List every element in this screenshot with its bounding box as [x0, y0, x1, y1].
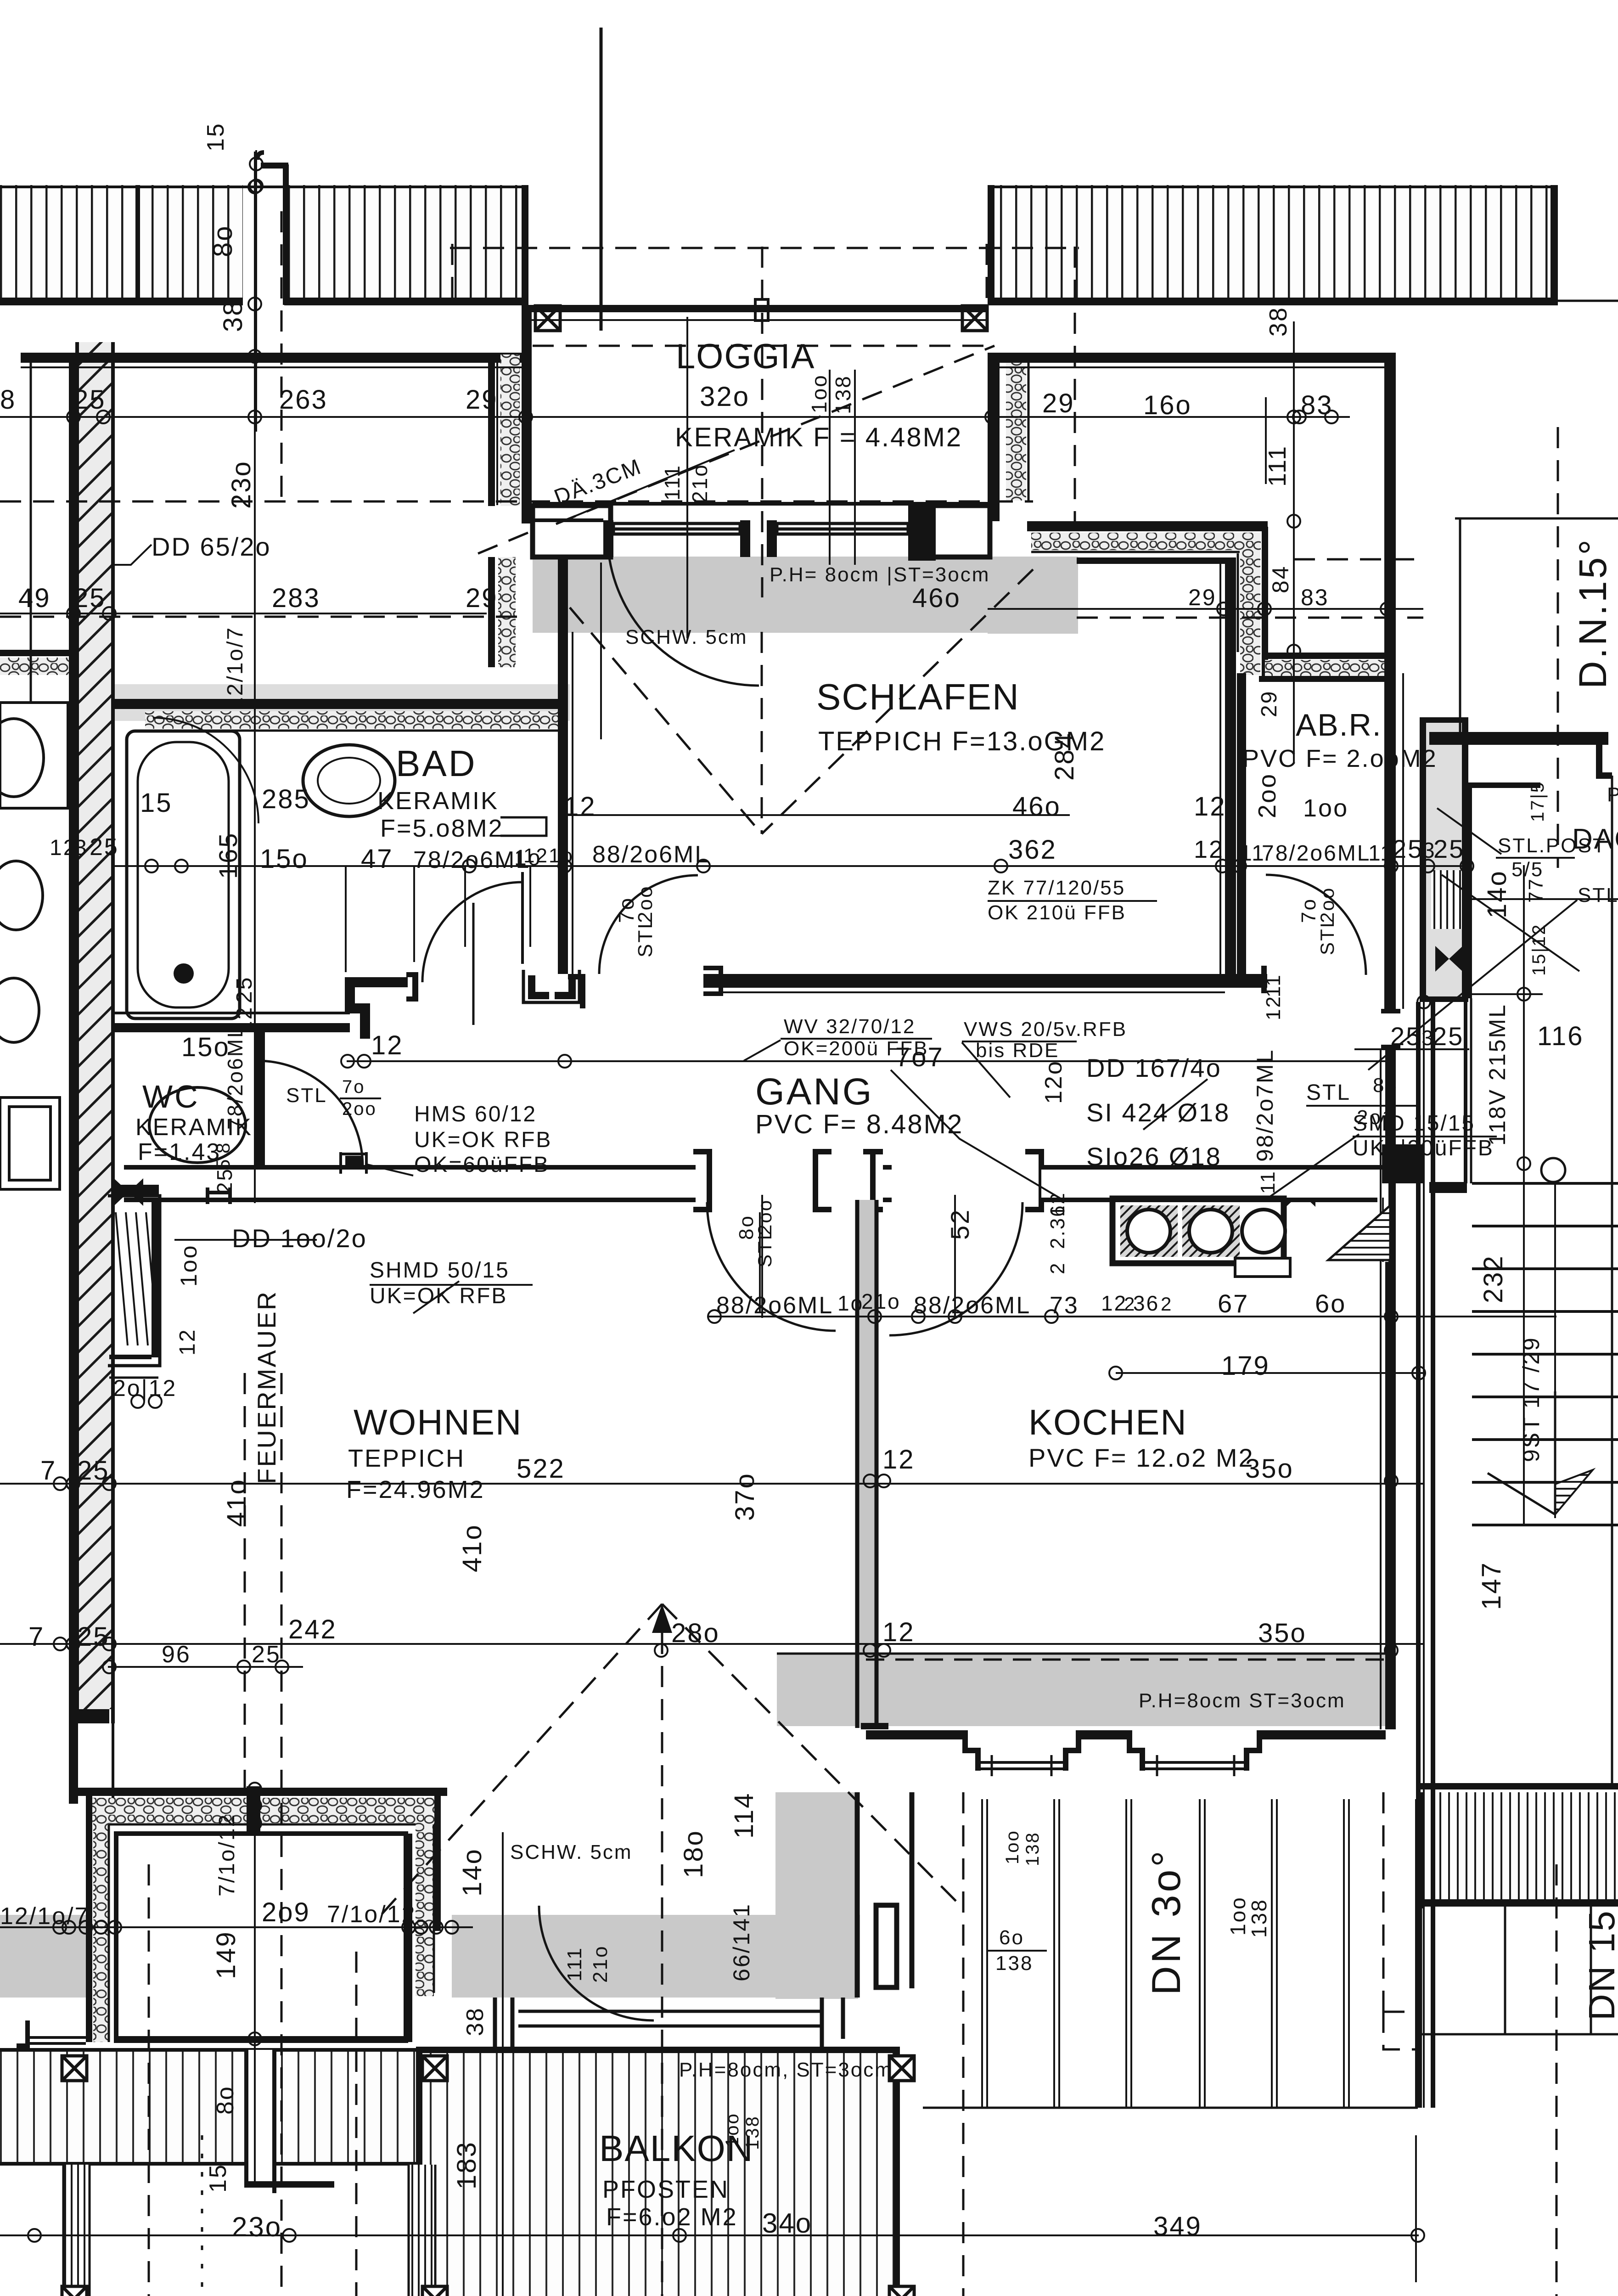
svg-text:73: 73: [1050, 1292, 1079, 1319]
svg-text:3: 3: [74, 836, 88, 860]
svg-text:DD 65/2o: DD 65/2o: [152, 532, 271, 561]
svg-text:25: 25: [77, 1622, 110, 1652]
svg-text:SCHLAFEN: SCHLAFEN: [816, 676, 1020, 717]
svg-text:9ST 17 /29: 9ST 17 /29: [1518, 1336, 1544, 1462]
svg-text:29: 29: [1188, 585, 1217, 610]
svg-text:18o: 18o: [679, 1829, 708, 1878]
svg-text:29: 29: [466, 385, 498, 415]
svg-text:WV 32/70/12: WV 32/70/12: [784, 1015, 916, 1038]
svg-text:UK=OK RFB: UK=OK RFB: [370, 1284, 507, 1308]
svg-text:25: 25: [1390, 1022, 1421, 1051]
svg-text:12/1o/7: 12/1o/7: [223, 626, 247, 709]
svg-text:25: 25: [90, 834, 119, 861]
svg-text:38: 38: [1264, 306, 1292, 337]
svg-text:12: 12: [1194, 792, 1226, 822]
svg-text:2.36: 2.36: [1046, 1204, 1069, 1249]
svg-text:WOHNEN: WOHNEN: [354, 1402, 522, 1442]
svg-text:14o: 14o: [457, 1848, 487, 1896]
svg-text:25: 25: [1433, 1022, 1464, 1051]
svg-text:88/2o6ML: 88/2o6ML: [914, 1292, 1031, 1319]
svg-text:WC: WC: [142, 1079, 200, 1114]
svg-text:BALKON: BALKON: [599, 2128, 754, 2169]
svg-text:UK=OK RFB: UK=OK RFB: [414, 1128, 552, 1152]
svg-text:12: 12: [371, 1030, 404, 1060]
svg-text:118V 215ML: 118V 215ML: [1484, 1003, 1510, 1146]
svg-text:17|5: 17|5: [1528, 781, 1548, 822]
svg-text:25: 25: [232, 976, 257, 1003]
svg-text:12: 12: [1194, 836, 1224, 863]
svg-text:88/2o6ML: 88/2o6ML: [716, 1292, 833, 1319]
svg-text:8o: 8o: [208, 225, 238, 257]
svg-text:67: 67: [1218, 1289, 1249, 1318]
svg-text:111: 111: [660, 464, 684, 501]
svg-text:35o: 35o: [1245, 1454, 1294, 1484]
svg-text:SCHW. 5cm: SCHW. 5cm: [625, 626, 748, 648]
svg-text:522: 522: [517, 1454, 565, 1484]
svg-text:15: 15: [202, 122, 229, 152]
svg-text:DN 3o°: DN 3o°: [1143, 1848, 1189, 1995]
svg-text:242: 242: [288, 1615, 337, 1644]
svg-text:7/1o/12: 7/1o/12: [215, 1813, 239, 1896]
svg-text:15: 15: [140, 788, 173, 818]
svg-text:25: 25: [77, 1456, 110, 1486]
svg-text:1o: 1o: [837, 1291, 864, 1315]
svg-text:1oo: 1oo: [1226, 1896, 1250, 1936]
svg-text:6o: 6o: [1315, 1289, 1346, 1318]
svg-text:PVC F= 8.48M2: PVC F= 8.48M2: [755, 1109, 963, 1139]
svg-text:83: 83: [1301, 390, 1333, 420]
svg-text:PFOSTEN: PFOSTEN: [602, 2176, 729, 2203]
svg-text:F=6.o2 M2: F=6.o2 M2: [606, 2203, 738, 2231]
svg-text:SI 424 Ø18: SI 424 Ø18: [1086, 1098, 1230, 1127]
svg-text:34o: 34o: [762, 2208, 812, 2239]
svg-text:STL: STL: [286, 1084, 327, 1107]
svg-text:F=5.o8M2: F=5.o8M2: [380, 815, 504, 842]
svg-text:12: 12: [882, 1445, 915, 1474]
svg-text:25: 25: [1392, 834, 1423, 863]
svg-text:HMS 60/12: HMS 60/12: [414, 1102, 537, 1126]
svg-text:183: 183: [452, 2141, 482, 2189]
svg-text:41o: 41o: [457, 1524, 487, 1572]
svg-text:ZK 77/120/55: ZK 77/120/55: [988, 877, 1125, 899]
svg-text:PVC F= 12.o2 M2: PVC F= 12.o2 M2: [1028, 1443, 1254, 1472]
svg-text:bis RDE: bis RDE: [976, 1039, 1059, 1062]
svg-text:1oo: 1oo: [807, 374, 831, 413]
svg-text:46o: 46o: [912, 583, 961, 613]
svg-text:F=24.96M2: F=24.96M2: [346, 1476, 485, 1503]
svg-text:15o: 15o: [181, 1032, 230, 1062]
svg-text:2: 2: [1046, 1262, 1069, 1274]
svg-text:1oo: 1oo: [1303, 794, 1348, 822]
svg-text:SMD 15/15: SMD 15/15: [1353, 1111, 1475, 1136]
svg-text:263: 263: [279, 385, 328, 415]
svg-text:2oo: 2oo: [634, 885, 657, 923]
svg-text:7: 7: [40, 1456, 56, 1486]
svg-text:85: 85: [1373, 1074, 1398, 1097]
svg-text:138: 138: [831, 375, 855, 414]
svg-text:2oo: 2oo: [342, 1099, 377, 1119]
svg-text:285: 285: [262, 784, 310, 814]
svg-text:7: 7: [28, 1622, 45, 1652]
svg-text:15: 15: [205, 2163, 231, 2193]
svg-text:114: 114: [729, 1792, 759, 1839]
svg-text:29: 29: [1042, 388, 1075, 418]
svg-text:2oo: 2oo: [754, 1199, 775, 1235]
svg-text:UK=|20üFFB: UK=|20üFFB: [1353, 1136, 1494, 1160]
svg-text:25: 25: [213, 1168, 236, 1194]
svg-text:116: 116: [1537, 1021, 1584, 1051]
svg-text:LOGGIA: LOGGIA: [676, 337, 815, 376]
svg-text:P.H=8ocm ST=3ocm: P.H=8ocm ST=3ocm: [1139, 1689, 1346, 1712]
svg-text:23o: 23o: [226, 460, 256, 509]
svg-text:25: 25: [1433, 834, 1465, 863]
svg-text:21o: 21o: [861, 1289, 901, 1313]
svg-text:16o: 16o: [1143, 390, 1192, 420]
svg-text:SIo26 Ø18: SIo26 Ø18: [1086, 1142, 1222, 1171]
svg-text:2oo: 2oo: [1316, 887, 1338, 923]
svg-text:15|12: 15|12: [1529, 923, 1549, 976]
svg-text:8: 8: [0, 385, 16, 415]
svg-text:32o: 32o: [700, 381, 750, 412]
svg-text:1oo: 1oo: [1002, 1829, 1022, 1864]
svg-text:BAD: BAD: [396, 743, 477, 784]
svg-text:283: 283: [272, 583, 320, 613]
svg-text:38: 38: [218, 299, 248, 332]
svg-text:TEPPICH: TEPPICH: [348, 1445, 465, 1472]
svg-text:SCHW. 5cm: SCHW. 5cm: [510, 1841, 633, 1863]
svg-text:2o|12: 2o|12: [113, 1375, 177, 1401]
svg-text:138: 138: [1022, 1831, 1043, 1866]
svg-text:49: 49: [18, 583, 51, 613]
svg-text:6o: 6o: [999, 1926, 1024, 1949]
svg-text:8: 8: [212, 1142, 234, 1154]
svg-text:P.H= 8ocm |ST=3ocm: P.H= 8ocm |ST=3ocm: [770, 563, 990, 586]
svg-text:DACH: DACH: [1572, 823, 1618, 855]
svg-text:7o: 7o: [342, 1077, 365, 1097]
svg-text:GANG: GANG: [755, 1071, 873, 1113]
svg-text:25: 25: [73, 583, 106, 613]
svg-text:8o: 8o: [212, 2085, 239, 2115]
svg-text:12/1o/7: 12/1o/7: [0, 1903, 90, 1930]
svg-text:78/2o6ML: 78/2o6ML: [413, 847, 530, 873]
svg-text:7/1o/12: 7/1o/12: [327, 1901, 416, 1928]
svg-text:P.H=8ocm, ST=3ocm: P.H=8ocm, ST=3ocm: [679, 2059, 893, 2081]
svg-text:149: 149: [211, 1930, 241, 1979]
svg-text:12o: 12o: [1040, 1060, 1067, 1104]
svg-text:PVC F= 2.ooM2: PVC F= 2.ooM2: [1242, 745, 1438, 772]
svg-text:84: 84: [1268, 565, 1293, 593]
svg-text:78/2o6ML: 78/2o6ML: [1262, 841, 1371, 866]
svg-text:12: 12: [1101, 1291, 1127, 1315]
svg-text:17: 17: [1380, 1153, 1400, 1176]
svg-text:5/5: 5/5: [1511, 858, 1544, 881]
svg-text:OK=60üFFB: OK=60üFFB: [414, 1153, 550, 1177]
svg-text:96: 96: [162, 1641, 191, 1668]
svg-text:STL 2: STL 2: [1578, 884, 1618, 906]
svg-text:25: 25: [252, 1641, 281, 1668]
svg-text:23o: 23o: [232, 2212, 282, 2242]
svg-text:52: 52: [945, 1209, 974, 1240]
svg-text:41o: 41o: [222, 1478, 252, 1527]
svg-text:2: 2: [1161, 1293, 1173, 1315]
svg-text:25: 25: [73, 385, 106, 415]
svg-text:98/2o7ML: 98/2o7ML: [1252, 1049, 1278, 1162]
svg-text:KERAMIK: KERAMIK: [377, 787, 499, 815]
svg-text:VWS 20/5v.RFB: VWS 20/5v.RFB: [964, 1018, 1127, 1041]
svg-text:STL: STL: [1306, 1080, 1351, 1105]
svg-text:2o9: 2o9: [262, 1897, 310, 1927]
svg-text:11: 11: [1368, 841, 1394, 866]
svg-text:FEUERMAUER: FEUERMAUER: [252, 1290, 281, 1484]
svg-text:111: 111: [1264, 445, 1291, 487]
svg-text:47: 47: [361, 844, 393, 874]
svg-text:179: 179: [1221, 1351, 1270, 1381]
svg-text:DD 1oo/2o: DD 1oo/2o: [232, 1224, 367, 1253]
svg-text:77: 77: [1525, 878, 1547, 903]
svg-text:78/2o6ML: 78/2o6ML: [223, 1024, 247, 1130]
svg-text:36: 36: [1133, 1291, 1159, 1315]
svg-text:AB.R.: AB.R.: [1296, 708, 1382, 743]
svg-text:12: 12: [564, 792, 596, 822]
svg-text:12: 12: [50, 836, 77, 860]
svg-text:DD 167/4o: DD 167/4o: [1086, 1053, 1222, 1082]
svg-text:2oo: 2oo: [1253, 773, 1281, 818]
svg-text:12: 12: [1262, 995, 1285, 1020]
svg-text:KERAMIK F = 4.48M2: KERAMIK F = 4.48M2: [675, 422, 962, 452]
svg-text:1oo: 1oo: [176, 1244, 202, 1287]
svg-text:14o: 14o: [1482, 870, 1512, 918]
svg-text:15o: 15o: [260, 844, 309, 874]
svg-text:P.: P.: [1607, 783, 1618, 806]
svg-text:138: 138: [995, 1952, 1033, 1975]
svg-text:83: 83: [1301, 585, 1329, 610]
svg-text:121o: 121o: [523, 844, 574, 867]
svg-text:KOCHEN: KOCHEN: [1028, 1402, 1187, 1442]
svg-text:111: 111: [563, 1947, 586, 1981]
svg-text:12: 12: [882, 1617, 915, 1647]
svg-text:21o: 21o: [589, 1945, 612, 1983]
svg-text:147: 147: [1477, 1561, 1506, 1610]
svg-text:D.N.15°: D.N.15°: [1571, 537, 1614, 689]
svg-text:37o: 37o: [730, 1472, 760, 1521]
svg-text:21o: 21o: [688, 463, 712, 503]
svg-text:66/141: 66/141: [729, 1903, 754, 1981]
svg-text:SHMD 50/15: SHMD 50/15: [370, 1258, 510, 1283]
svg-text:349: 349: [1153, 2212, 1202, 2241]
svg-text:F=1.43: F=1.43: [138, 1139, 221, 1165]
svg-text:12: 12: [175, 1328, 200, 1356]
svg-text:35o: 35o: [1258, 1618, 1307, 1648]
svg-text:29: 29: [1257, 690, 1281, 717]
svg-text:88/2o6ML: 88/2o6ML: [592, 841, 709, 868]
svg-text:11: 11: [1262, 974, 1285, 997]
svg-text:46o: 46o: [1012, 792, 1061, 822]
svg-text:11: 11: [1257, 1170, 1279, 1194]
svg-text:138: 138: [1247, 1898, 1271, 1938]
svg-text:29: 29: [466, 583, 498, 613]
svg-text:362: 362: [1008, 835, 1057, 865]
svg-text:OK 210ü FFB: OK 210ü FFB: [988, 901, 1126, 924]
svg-text:165: 165: [213, 832, 242, 879]
svg-text:38: 38: [462, 2007, 489, 2036]
svg-text:DN 15: DN 15: [1581, 1909, 1618, 2020]
svg-text:284: 284: [1050, 732, 1079, 781]
svg-text:232: 232: [1478, 1255, 1508, 1303]
svg-text:OK=200ü FFB: OK=200ü FFB: [784, 1037, 928, 1060]
svg-text:28o: 28o: [671, 1618, 720, 1648]
